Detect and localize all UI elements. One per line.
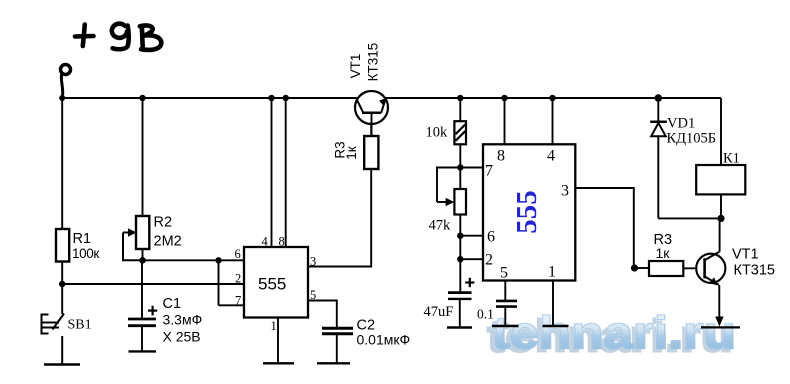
pin 6	[235, 247, 241, 261]
svg-text:VT1: VT1	[348, 54, 363, 79]
svg-text:R2: R2	[154, 215, 173, 231]
capacitor C1	[128, 306, 157, 326]
wire pin1 down	[277, 318, 279, 364]
ground 47uF	[447, 326, 472, 328]
svg-text:1: 1	[271, 319, 277, 333]
svg-text:1: 1	[548, 264, 556, 281]
capacitor 0.1	[496, 301, 517, 326]
node R2 bottom	[139, 257, 146, 264]
svg-text:tehnari.ru: tehnari.ru	[492, 307, 736, 358]
resistor R3 second	[649, 232, 683, 276]
wire node to R3	[634, 267, 649, 269]
node rail pin4 IC2	[549, 95, 555, 101]
pin 1	[271, 319, 277, 333]
wire pin3 to R3	[308, 169, 371, 267]
svg-text:47k: 47k	[429, 218, 452, 234]
pin 8 IC2	[497, 148, 505, 165]
svg-text:555: 555	[258, 275, 286, 294]
svg-text:SB1: SB1	[68, 318, 92, 333]
wire emitter down	[718, 285, 720, 319]
ground 0.1	[492, 325, 519, 327]
wire relay column	[720, 98, 722, 165]
svg-text:КТ315: КТ315	[366, 43, 381, 82]
timer IC 555 #1	[244, 247, 308, 318]
pin 2	[235, 272, 241, 286]
svg-text:К1: К1	[723, 151, 740, 167]
wire relay down	[720, 194, 722, 218]
wire R1 column	[61, 98, 63, 314]
wire top rail right	[385, 97, 721, 99]
node 6-7 tie	[215, 257, 221, 263]
svg-text:VD1: VD1	[667, 116, 695, 132]
wire R3 to base	[683, 267, 704, 269]
ground pin1 IC1	[263, 362, 294, 364]
wiper loop 47k	[437, 168, 460, 203]
svg-text:7: 7	[485, 163, 493, 180]
svg-text:1к: 1к	[656, 245, 671, 261]
resistor R3 first	[333, 123, 379, 169]
node pin7 tie	[457, 164, 463, 170]
wire pin8 column IC1	[285, 98, 287, 247]
node rail diode	[655, 94, 663, 102]
pin 1 IC2	[548, 264, 556, 281]
ground C1	[129, 350, 157, 352]
resistor R1	[56, 229, 99, 262]
pin 7	[235, 294, 241, 308]
pin 8	[279, 235, 285, 249]
node rail pin8 IC1	[283, 95, 289, 101]
pin 4	[262, 235, 269, 249]
svg-text:5: 5	[500, 265, 508, 282]
label VD1	[667, 116, 717, 147]
svg-text:47uF: 47uF	[424, 304, 454, 320]
svg-text:555: 555	[511, 190, 543, 234]
svg-text:C1: C1	[163, 296, 182, 312]
wire pin4 column IC1	[271, 98, 273, 247]
pin 3 IC2	[561, 183, 569, 200]
emitter arrow to ground	[715, 317, 723, 327]
wire 6-7 vertical	[218, 260, 220, 305]
watermark tehnari.ru	[487, 307, 736, 362]
wire C1 column	[141, 260, 143, 351]
pin 4 IC2	[547, 148, 555, 165]
node rail 10k	[457, 95, 463, 101]
pin 5 IC2	[500, 265, 508, 282]
wire pin3 IC2 to R3	[575, 188, 634, 268]
capacitor C2	[322, 328, 353, 363]
node rail input	[59, 95, 65, 101]
wire pin2 long	[62, 283, 244, 285]
pin 2 IC2	[485, 252, 493, 269]
capacitor 47uF	[448, 278, 474, 327]
wire pot down	[459, 215, 461, 293]
label 0.1	[477, 307, 494, 322]
wire diode column top	[657, 98, 659, 121]
svg-text:8: 8	[279, 235, 285, 249]
svg-text:0.1: 0.1	[477, 307, 494, 322]
svg-text:2: 2	[485, 252, 493, 269]
wire pin8 column IC2	[504, 98, 506, 144]
node rail pin8 IC2	[501, 95, 507, 101]
svg-text:6: 6	[487, 229, 495, 246]
svg-text:1к: 1к	[344, 146, 359, 160]
svg-text:3: 3	[561, 183, 569, 200]
node pin2 tie	[457, 256, 463, 262]
diode VD1	[650, 122, 667, 219]
potentiometer R2	[123, 215, 182, 261]
wire pin5 to C2	[308, 301, 337, 328]
node R3 input	[631, 264, 638, 271]
ground VT1 second	[701, 326, 740, 328]
ground SB1	[44, 363, 80, 365]
pin 5	[310, 288, 316, 302]
node rail R2	[139, 95, 145, 101]
label SB1	[68, 318, 92, 333]
wire R2 column	[142, 98, 144, 260]
relay K1	[696, 151, 745, 195]
wire pin2 IC2	[460, 258, 483, 260]
svg-text:КД105Б: КД105Б	[667, 131, 717, 147]
label C1	[163, 296, 203, 345]
svg-text:4: 4	[262, 235, 269, 249]
potentiometer 47k	[429, 189, 467, 234]
terminal input	[61, 65, 71, 98]
pin 3	[310, 255, 316, 269]
node pin6 tie	[457, 233, 463, 239]
wire pin5 IC2 down	[504, 281, 506, 301]
label VT1 second	[732, 247, 775, 279]
wire top rail left	[62, 97, 359, 99]
wire pin7 IC2	[460, 167, 483, 169]
svg-text:3.3мФ: 3.3мФ	[163, 312, 203, 328]
svg-text:КТ315: КТ315	[734, 263, 776, 279]
wire pin6 IC2	[460, 235, 483, 237]
wire 10k to pot	[459, 144, 461, 189]
node R1-SB1	[59, 281, 65, 287]
node relay-diode	[717, 215, 724, 222]
ground C2	[317, 362, 350, 364]
svg-text:X 25В: X 25В	[163, 329, 201, 345]
wire diode bottom row	[658, 217, 721, 219]
label 47uF	[424, 304, 454, 320]
wire 10k column	[459, 98, 461, 121]
svg-text:6: 6	[235, 247, 241, 261]
pin 6 IC2	[487, 229, 495, 246]
svg-text:VT1: VT1	[732, 247, 759, 263]
transistor VT1 first	[355, 91, 388, 136]
node rail pin4 IC1	[268, 95, 274, 101]
svg-text:100к: 100к	[72, 246, 99, 261]
label VT1 first	[348, 43, 381, 82]
pushbutton SB1	[42, 314, 65, 365]
svg-text:8: 8	[497, 148, 505, 165]
label C2	[357, 318, 411, 348]
transistor VT1 second	[696, 252, 725, 285]
svg-text:10k: 10k	[426, 125, 449, 141]
ground pin1 IC2	[543, 325, 569, 327]
wire pin7 row	[219, 304, 245, 306]
svg-text:7: 7	[235, 294, 241, 308]
label +9V supply	[75, 24, 161, 50]
svg-text:R1: R1	[73, 231, 92, 247]
pin 7 IC2	[485, 163, 493, 180]
wire collector up	[719, 218, 721, 251]
svg-text:2: 2	[235, 272, 241, 286]
timer IC 555 #2	[483, 144, 575, 280]
svg-text:2М2: 2М2	[154, 234, 182, 250]
svg-text:0.01мкФ: 0.01мкФ	[357, 332, 411, 348]
wire pin6 row	[143, 259, 245, 261]
wire pin4 column IC2	[552, 98, 554, 144]
resistor 10k	[426, 121, 467, 144]
svg-text:4: 4	[547, 148, 555, 165]
wire pin1 IC2 down	[552, 281, 554, 326]
